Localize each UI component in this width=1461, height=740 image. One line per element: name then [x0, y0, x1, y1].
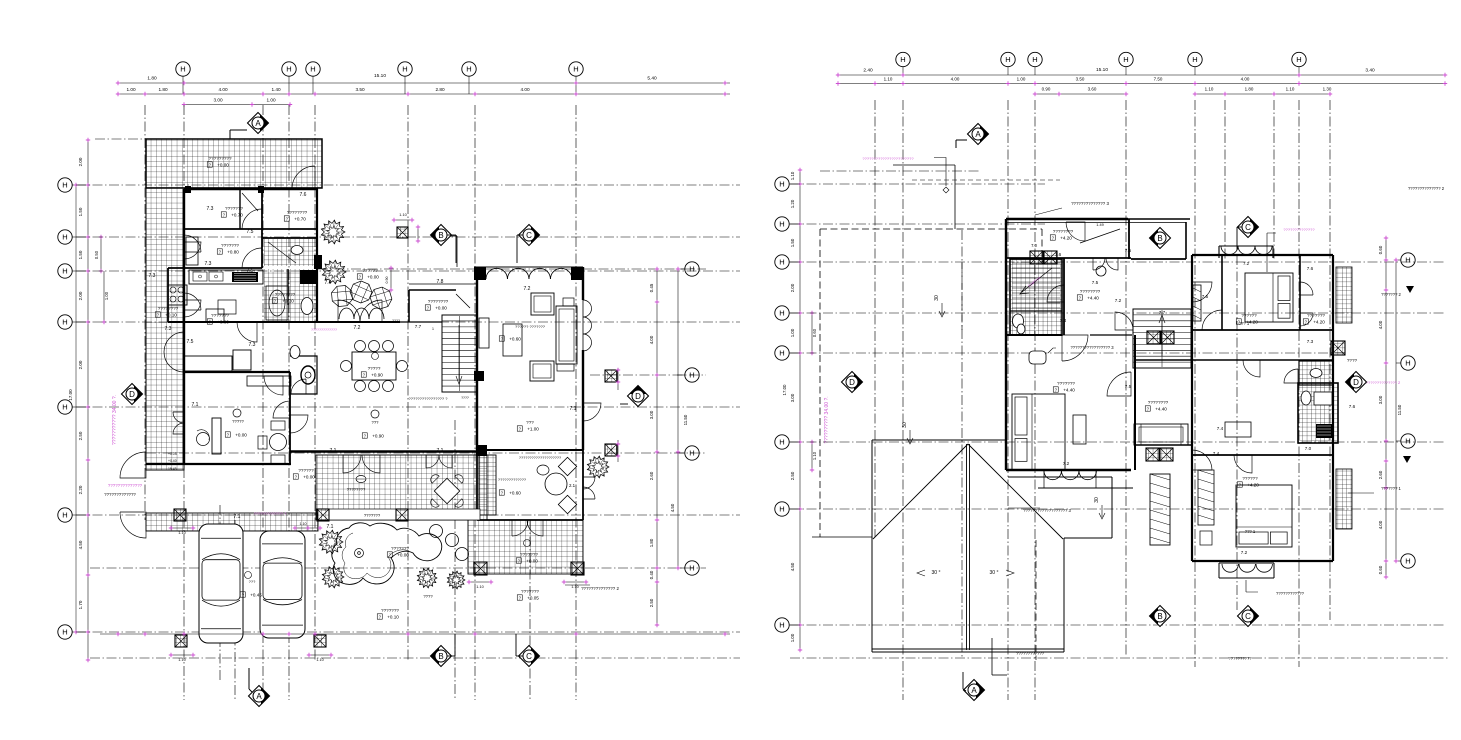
svg-text:30: 30	[934, 295, 940, 301]
left plan mini dims at columns	[171, 527, 193, 529]
svg-text:????????: ????????	[1080, 289, 1101, 294]
right plan entry double doors	[1093, 258, 1105, 270]
svg-text:3.40: 3.40	[1365, 68, 1375, 74]
svg-text:3.00: 3.00	[790, 393, 795, 402]
svg-text:?????????????? ?: ?????????????? ?	[254, 512, 287, 516]
right plan wall x1064	[1063, 258, 1065, 335]
left plan stepping stones	[430, 525, 443, 538]
svg-text:+0.00: +0.00	[435, 306, 447, 311]
left plan living armchair top	[531, 293, 554, 315]
svg-text:2.1: 2.1	[569, 483, 576, 488]
right plan dash line y171	[820, 170, 980, 172]
svg-text:+0.00: +0.00	[397, 553, 409, 558]
svg-text:2.40: 2.40	[863, 68, 873, 74]
right plan master side table	[1073, 415, 1086, 444]
svg-text:30: 30	[902, 422, 908, 428]
svg-text:7.1: 7.1	[437, 448, 444, 454]
svg-text:????: ????	[392, 319, 400, 323]
svg-text:H: H	[1296, 55, 1301, 64]
left plan right grid circles	[685, 262, 699, 276]
left plan top dimension line 2	[118, 93, 730, 95]
left plan office desk	[212, 418, 221, 454]
left plan doors row A	[242, 209, 262, 229]
right plan section marker A bottom	[964, 680, 985, 701]
left plan section marker D left	[122, 384, 143, 405]
svg-text:D: D	[129, 390, 135, 399]
right plan hall wall y445	[1135, 444, 1192, 446]
left plan section marker A top	[248, 113, 269, 134]
left plan kitchen bath bottom wall	[168, 321, 400, 323]
svg-text:???????????????? ?: ???????????????? ?	[409, 396, 449, 401]
svg-text:???????: ???????	[211, 313, 229, 318]
svg-text:0.60: 0.60	[812, 328, 817, 337]
svg-text:?????????????: ?????????????	[498, 477, 527, 482]
svg-text:5.40: 5.40	[647, 76, 657, 82]
right plan bedroom2 wardrobe	[1198, 470, 1214, 525]
left plan living tv unit	[479, 318, 489, 348]
svg-text:7.6: 7.6	[1349, 404, 1356, 409]
svg-text:????????????????????: ????????????????????	[519, 456, 561, 460]
left plan wall row A bottom	[184, 228, 318, 230]
svg-text:4.00: 4.00	[649, 335, 654, 344]
svg-text:?????????????: ?????????????	[311, 328, 337, 332]
svg-text:+4.40: +4.40	[1063, 388, 1075, 393]
right plan wing divider x1300	[1299, 255, 1301, 330]
left plan office bottom wall	[146, 463, 291, 465]
svg-text:H: H	[1405, 256, 1410, 265]
svg-text:???????: ???????	[391, 546, 409, 551]
left plan wall divider room1	[239, 189, 241, 229]
svg-text:7.5: 7.5	[187, 339, 194, 345]
left plan bottom dimension line	[100, 633, 730, 635]
right plan stairs	[1133, 309, 1191, 368]
svg-text:7.50: 7.50	[1154, 77, 1163, 82]
left plan section marker B top	[431, 225, 452, 246]
right plan wing mid wall y360	[1192, 359, 1333, 361]
svg-text:1.10: 1.10	[178, 531, 185, 535]
svg-text:H: H	[62, 267, 67, 276]
svg-text:7.3: 7.3	[249, 342, 256, 348]
svg-text:???????: ???????	[520, 552, 538, 557]
left plan pool	[332, 523, 442, 585]
right plan closet strip	[1150, 474, 1170, 545]
right plan corridor wall y335	[1005, 334, 1062, 336]
svg-text:7.3: 7.3	[165, 326, 172, 332]
left plan hatched left column	[146, 188, 184, 470]
svg-text:+4.20: +4.20	[1247, 483, 1259, 488]
svg-text:+0.80: +0.80	[227, 250, 239, 255]
svg-text:7.7: 7.7	[415, 324, 422, 329]
left plan top dimension line 1	[118, 82, 730, 84]
left plan office chair	[197, 433, 210, 446]
left plan dining table set	[352, 352, 396, 380]
svg-text:1.10: 1.10	[476, 585, 483, 589]
svg-text:B: B	[1157, 612, 1162, 621]
left plan plant arcs row	[339, 308, 354, 319]
right plan porch top walls	[1128, 219, 1190, 259]
svg-text:????: ????	[423, 594, 433, 599]
right plan roof stub top-left	[893, 165, 955, 229]
svg-text:??????????????: ??????????????	[108, 483, 143, 488]
left plan left sub chains	[100, 237, 102, 271]
left plan doors row B	[242, 248, 262, 268]
svg-text:1.10: 1.10	[316, 658, 323, 662]
svg-text:11.50: 11.50	[1397, 404, 1402, 415]
svg-text:30: 30	[1094, 497, 1100, 503]
svg-text:+1.00: +1.00	[527, 427, 539, 432]
right plan section marker C top	[1238, 217, 1259, 238]
svg-text:??????: ??????	[298, 468, 314, 473]
svg-text:1.70: 1.70	[78, 600, 83, 609]
svg-text:7.2: 7.2	[1115, 298, 1122, 303]
svg-text:7.5: 7.5	[247, 229, 254, 235]
right plan wall y259 right	[1131, 258, 1186, 260]
left plan row B wardrobe	[186, 237, 198, 265]
svg-text:7.1: 7.1	[570, 406, 577, 412]
svg-text:???: ???	[372, 420, 380, 425]
right plan roof outline	[872, 440, 1112, 652]
svg-text:+0.80: +0.80	[217, 320, 229, 325]
right plan section marker D left	[842, 372, 863, 393]
svg-text:3.00: 3.00	[213, 98, 223, 103]
left plan door great room from office	[290, 415, 308, 433]
left plan doors dining to patio	[512, 520, 528, 536]
left plan great room south wall	[290, 450, 477, 453]
left plan vertical grid lines	[144, 105, 146, 520]
svg-text:7.6: 7.6	[1307, 266, 1314, 271]
svg-text:7.6: 7.6	[1055, 252, 1062, 257]
right plan door leaf diag 1.49	[1080, 229, 1120, 243]
right plan wing divider x1222	[1221, 255, 1223, 330]
left plan living armchair bottom	[530, 361, 554, 381]
right plan roof eave left	[812, 536, 872, 538]
left plan patio label	[524, 540, 531, 547]
left plan gate arcs bottom left	[120, 452, 146, 478]
svg-text:+4.20: +4.20	[1060, 236, 1072, 241]
left plan double doors office hatch	[173, 412, 184, 423]
svg-text:H: H	[1405, 557, 1410, 566]
right plan right black triangles	[1406, 286, 1414, 293]
left plan dining double door right	[583, 477, 595, 489]
svg-text:2.20: 2.20	[78, 485, 83, 494]
svg-text:4.00: 4.00	[218, 87, 228, 92]
left plan room 7.4 boiler	[301, 366, 315, 384]
svg-text:H: H	[62, 403, 67, 412]
svg-text:7.7: 7.7	[1159, 310, 1166, 315]
right plan outer wall bottom master	[1006, 469, 1131, 471]
svg-text:????????: ????????	[428, 299, 449, 304]
svg-text:?????????: ?????????	[209, 156, 232, 161]
svg-text:7.3: 7.3	[1307, 339, 1314, 344]
svg-text:2.60: 2.60	[1378, 470, 1383, 479]
svg-text:D: D	[635, 392, 641, 401]
left plan living room porch columns	[474, 267, 486, 280]
svg-text:???: ???	[526, 420, 534, 425]
right plan balcony hatch right 1	[1336, 267, 1352, 323]
svg-text:+0.10: +0.10	[165, 313, 177, 318]
svg-text:????????: ????????	[1148, 400, 1169, 405]
svg-text:H: H	[689, 265, 694, 274]
svg-text:+4.40: +4.40	[1087, 296, 1099, 301]
svg-text:????????: ????????	[158, 306, 179, 311]
left plan section B stub line	[449, 235, 457, 237]
svg-text:7.4: 7.4	[1217, 426, 1224, 431]
svg-text:1.50: 1.50	[790, 238, 795, 247]
right plan master balcony	[1038, 487, 1133, 489]
svg-text:0.40: 0.40	[649, 570, 654, 579]
right plan section marker B right-top	[1150, 228, 1171, 249]
svg-text:+0.00: +0.00	[526, 559, 538, 564]
right plan bedroom2 chair	[1200, 531, 1212, 545]
svg-text:1.00: 1.00	[266, 98, 276, 103]
svg-text:???????: ???????	[521, 589, 539, 594]
left plan patio white band	[318, 509, 480, 520]
left plan left grid circles	[58, 178, 72, 192]
svg-text:H: H	[62, 233, 67, 242]
svg-text:0.90: 0.90	[385, 277, 389, 284]
svg-text:????????????: ????????????	[1276, 591, 1305, 596]
svg-text:+0.60: +0.60	[509, 491, 521, 496]
left plan bath2 divider wall	[287, 269, 289, 305]
left plan wall columns black	[474, 371, 484, 381]
svg-text:3.50: 3.50	[1076, 77, 1085, 82]
left plan kitchen left wall	[168, 268, 184, 322]
right plan balcony leader note	[1246, 580, 1258, 592]
right plan section marker A top	[968, 124, 989, 145]
svg-text:2.50: 2.50	[790, 471, 795, 480]
svg-text:+0.70: +0.70	[294, 217, 306, 222]
svg-text:1.10: 1.10	[178, 658, 185, 662]
svg-text:3.00: 3.00	[1378, 395, 1383, 404]
svg-text:+0.60: +0.60	[509, 337, 521, 342]
svg-text:1.80: 1.80	[158, 87, 168, 92]
left plan section marker D right	[628, 386, 649, 407]
left plan garden table set	[434, 478, 459, 503]
svg-text:??? 1: ??? 1	[1245, 529, 1256, 534]
svg-text:+0.00: +0.00	[367, 275, 379, 280]
right plan inner wall x1135	[1134, 335, 1136, 470]
svg-text:7.1: 7.1	[327, 524, 334, 530]
svg-text:1.10: 1.10	[399, 213, 406, 217]
svg-text:???: ???	[249, 579, 256, 584]
svg-text:7.0: 7.0	[1031, 243, 1037, 248]
right plan wc fixtures	[1013, 314, 1024, 328]
right plan bed bottom-right	[1236, 485, 1292, 547]
svg-text:2.60: 2.60	[649, 471, 654, 480]
svg-text:+0.03: +0.03	[168, 452, 177, 456]
svg-text:7.5: 7.5	[247, 268, 254, 274]
svg-text:0.90: 0.90	[1042, 87, 1051, 92]
left plan trees pool area	[319, 530, 343, 554]
svg-text:4.00: 4.00	[951, 77, 960, 82]
svg-text:1.50: 1.50	[78, 207, 83, 216]
svg-text:H: H	[779, 505, 784, 514]
right plan horizontal grid lines	[790, 183, 1045, 185]
right plan top dimension line 1	[838, 74, 1445, 76]
svg-text:2.00: 2.00	[78, 291, 83, 300]
svg-text:2.50: 2.50	[649, 598, 654, 607]
left plan wc room 7.4 partition	[290, 356, 317, 394]
svg-text:+0.00: +0.00	[303, 475, 315, 480]
svg-text:H: H	[779, 621, 784, 630]
left plan dining round table	[545, 473, 567, 495]
svg-text:4.00: 4.00	[520, 87, 530, 92]
svg-text:1.80: 1.80	[1245, 87, 1254, 92]
right plan wall y258 top room	[1006, 257, 1131, 259]
left plan wall divider x262	[261, 189, 263, 268]
svg-text:H: H	[1005, 55, 1010, 64]
svg-text:1.00: 1.00	[790, 633, 795, 642]
left plan living sofa right	[556, 306, 577, 364]
svg-text:H: H	[779, 258, 784, 267]
svg-text:7.4: 7.4	[1213, 451, 1220, 456]
right plan wc hatch small	[1299, 361, 1333, 385]
right plan master chair	[1029, 351, 1046, 364]
svg-text:1: 1	[432, 327, 434, 331]
svg-text:1.00: 1.00	[1017, 77, 1026, 82]
svg-text:??? 1: ??? 1	[1239, 321, 1250, 326]
svg-text:7.5: 7.5	[1202, 294, 1209, 299]
right plan column pair left	[1030, 251, 1043, 264]
left plan doors left wall	[184, 242, 201, 259]
svg-text:H: H	[1192, 55, 1197, 64]
left plan wall row B bottom	[184, 267, 262, 269]
right plan wc partition y311	[1010, 310, 1062, 312]
right plan center bath hatch	[1298, 383, 1338, 443]
svg-text:????????????????? 3: ????????????????? 3	[1070, 345, 1114, 350]
svg-text:H: H	[1405, 359, 1410, 368]
svg-text:1.80: 1.80	[147, 76, 157, 82]
svg-text:17.00: 17.00	[68, 389, 73, 401]
right plan section marker C bottom	[1238, 606, 1259, 627]
svg-text:?????????????: ?????????????	[104, 492, 136, 497]
svg-text:H: H	[62, 181, 67, 190]
left plan door living patio right	[583, 403, 601, 421]
left plan patio right hatch	[468, 520, 583, 574]
svg-text:??????? 2: ??????? 2	[1381, 292, 1401, 297]
left plan car 1	[199, 524, 243, 643]
svg-text:?????: ?????	[368, 366, 381, 371]
right plan hall column pair	[1146, 448, 1159, 461]
svg-text:H: H	[900, 55, 905, 64]
svg-text:???????: ???????	[381, 608, 399, 613]
left plan bottom dash line	[90, 657, 740, 659]
svg-text:+0.00: +0.00	[235, 433, 247, 438]
right plan outer wall left	[1005, 219, 1007, 470]
left plan magenta dim 0.90 terrace	[390, 268, 392, 290]
svg-text:11.50: 11.50	[683, 414, 688, 425]
svg-text:+4.40: +4.40	[1155, 407, 1167, 412]
svg-text:17.00: 17.00	[782, 384, 787, 396]
left plan office round table	[270, 434, 287, 451]
right plan left sub chains	[811, 313, 813, 353]
right plan balcony bottom-right	[1219, 563, 1274, 578]
right plan internal stair arrow	[1020, 268, 1052, 294]
right plan right dimension chain	[1385, 238, 1387, 577]
svg-text:7.2: 7.2	[354, 325, 361, 331]
right plan wing mid wall y455	[1192, 454, 1333, 456]
svg-text:C: C	[526, 231, 532, 240]
svg-text:H: H	[779, 349, 784, 358]
svg-text:C: C	[526, 652, 532, 661]
left plan patio double doors right	[426, 455, 439, 468]
svg-text:??????????: ??????????	[1228, 656, 1252, 661]
svg-text:H: H	[779, 180, 784, 189]
left plan bath2 fixtures	[300, 270, 316, 284]
svg-text:4.00: 4.00	[1241, 77, 1250, 82]
svg-text:????????????: ????????????	[1016, 651, 1045, 656]
svg-text:4.00: 4.00	[1378, 520, 1383, 529]
svg-text:1.50: 1.50	[78, 250, 83, 259]
left plan section marker C bottom	[519, 646, 540, 667]
svg-text:4.50: 4.50	[790, 562, 795, 571]
svg-text:H: H	[402, 65, 407, 74]
left plan wall under room 7.6	[263, 237, 318, 239]
left plan living room porch arcs	[474, 266, 583, 268]
svg-text:0.60: 0.60	[1378, 245, 1383, 254]
svg-text:+0.70: +0.70	[231, 213, 243, 218]
right plan bottom dash line	[790, 657, 1450, 659]
svg-text:???????: ???????	[221, 243, 239, 248]
svg-text:1.10: 1.10	[1205, 87, 1214, 92]
right plan top grid circles	[896, 52, 910, 66]
right plan section marker D right	[1346, 372, 1367, 393]
svg-text:2.50: 2.50	[78, 431, 83, 440]
svg-text:????????: ????????	[347, 487, 366, 492]
svg-text:??????: ??????	[362, 268, 378, 273]
svg-text:7.5: 7.5	[1125, 384, 1132, 389]
left plan car 2	[260, 531, 305, 638]
left plan right dimension chain	[656, 269, 658, 625]
svg-text:1.10: 1.10	[812, 451, 817, 460]
left plan office center label	[233, 409, 241, 417]
right plan top dimension line 2	[838, 83, 1445, 85]
left plan trees upper	[321, 220, 345, 244]
svg-text:???????: ???????	[1057, 381, 1075, 386]
svg-text:1.10: 1.10	[571, 585, 578, 589]
right plan section marker B bottom	[1150, 606, 1171, 627]
left plan dining room walls	[477, 450, 583, 520]
svg-text:1.00: 1.00	[790, 328, 795, 337]
svg-text:1.80: 1.80	[649, 538, 654, 547]
left plan wall column x317	[314, 255, 322, 269]
svg-text:0.45: 0.45	[649, 283, 654, 292]
left plan tree right patio	[587, 456, 609, 478]
svg-text:7.3: 7.3	[205, 261, 212, 267]
svg-text:H: H	[180, 65, 185, 74]
left plan door hall 7.4	[291, 379, 306, 394]
svg-text:A: A	[975, 130, 981, 139]
svg-text:4.50: 4.50	[670, 503, 675, 512]
svg-text:1.30: 1.30	[1323, 87, 1332, 92]
svg-text:+0.00: +0.00	[217, 163, 229, 168]
svg-text:H: H	[62, 628, 67, 637]
left plan outer wall left	[183, 189, 185, 464]
right plan bedroom1 bottom wall	[1192, 329, 1333, 331]
left plan vestibule 7.8 walls	[409, 290, 456, 322]
right plan master bed	[1012, 394, 1065, 470]
svg-text:+4.20: +4.20	[1313, 320, 1325, 325]
left plan door hall to great room	[264, 376, 283, 395]
right plan doors	[1066, 222, 1085, 241]
right plan column hatch right	[1331, 341, 1345, 355]
svg-text:?????: ?????	[232, 419, 244, 424]
svg-text:????????: ????????	[287, 210, 308, 215]
svg-text:H: H	[62, 318, 67, 327]
svg-text:2.00: 2.00	[78, 360, 83, 369]
left plan living room left wall	[476, 280, 478, 450]
svg-text:???????: ???????	[1307, 313, 1325, 318]
